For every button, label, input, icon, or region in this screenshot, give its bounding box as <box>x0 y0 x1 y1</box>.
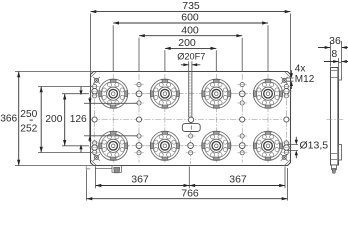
hole trio left edge top <box>89 84 100 98</box>
svg-text:36: 36 <box>329 35 341 47</box>
hole trio inner column right top <box>236 83 248 106</box>
dimension 400 <box>139 38 242 72</box>
bottom-left rack bracket detail <box>86 166 112 169</box>
svg-text:8: 8 <box>331 48 337 60</box>
small row pointer arrows <box>80 87 82 153</box>
svg-text:400: 400 <box>181 24 199 36</box>
M12 tapped hole bottom-left <box>93 154 100 161</box>
dimension 200 <box>165 50 216 71</box>
central capsule slot <box>182 124 200 132</box>
svg-text:M12: M12 <box>295 74 315 85</box>
bearing flange B6 bottom row <box>150 131 179 160</box>
middle row hole inner left <box>136 117 141 122</box>
hole trio right edge bottom (Ø13,5 holes) <box>281 141 292 155</box>
svg-text:735: 735 <box>182 0 200 12</box>
M12 tapped hole top-left <box>93 77 100 84</box>
dimension 36 <box>331 41 342 67</box>
side view right strips <box>339 63 342 81</box>
middle row hole left edge <box>92 117 97 122</box>
dimension 366 <box>15 72 93 166</box>
horizontal centerline middle row <box>91 119 290 121</box>
hole trio inner column left top <box>133 83 145 106</box>
hole trio right edge top <box>281 84 292 98</box>
side view inner face line <box>337 68 339 166</box>
svg-text:600: 600 <box>181 12 199 24</box>
side view main outline <box>331 68 339 166</box>
M12 tapped hole top-right <box>281 77 288 84</box>
svg-text:252: 252 <box>20 124 37 135</box>
central vertical rack slot <box>189 71 192 117</box>
dimension 4x M12 <box>287 78 294 81</box>
svg-text:200: 200 <box>178 37 196 49</box>
corner chamfer marks <box>91 72 291 166</box>
svg-text:Ø13,5: Ø13,5 <box>300 139 329 151</box>
hole trio left edge bottom <box>89 141 100 155</box>
svg-text:367: 367 <box>229 174 247 186</box>
svg-text:Ø20F7: Ø20F7 <box>177 51 205 61</box>
middle row hole right edge <box>284 117 289 122</box>
dimension 367 left <box>96 167 286 189</box>
horizontal centerline top bearing row <box>92 93 289 95</box>
svg-text:200: 200 <box>45 114 62 125</box>
bearing flange B3 top row <box>202 79 231 108</box>
bearing flange B8 bottom row <box>253 131 282 160</box>
dimension 766 <box>87 168 288 201</box>
hole trio inner column left bottom <box>133 134 145 155</box>
horizontal centerline bottom bearing row <box>92 145 289 147</box>
bearing flange B4 top row <box>253 79 282 108</box>
dimension 250-252 <box>38 87 92 153</box>
svg-text:250: 250 <box>20 109 37 120</box>
hole trio center column bottom <box>185 134 197 155</box>
dimension 126 <box>84 103 138 136</box>
svg-text:126: 126 <box>70 114 87 125</box>
dimension 600 <box>113 25 268 71</box>
side view bottom stub <box>332 165 337 170</box>
small hole below slot <box>188 117 193 122</box>
M12 tapped hole bottom-right <box>281 154 288 161</box>
bearing flange B2 top row <box>150 79 179 108</box>
bearing flange B1 top row <box>99 79 128 108</box>
bearing flange B5 bottom row <box>99 131 128 160</box>
side view centerline <box>327 119 344 121</box>
dimension Ø13,5 <box>288 145 299 151</box>
dimension 200 (left) <box>62 94 89 146</box>
side view hole section ticks <box>331 71 338 160</box>
hole trio inner column right bottom <box>236 134 248 155</box>
vertical centerlines of hole columns <box>95 78 287 161</box>
dimension 735 <box>91 14 291 75</box>
middle row hole inner right <box>240 117 245 122</box>
svg-text:766: 766 <box>181 188 199 200</box>
plate outline <box>91 72 291 166</box>
svg-text:366: 366 <box>0 113 17 124</box>
bearing flange B7 bottom row <box>202 131 231 160</box>
svg-text:367: 367 <box>131 174 149 186</box>
dimension 8 <box>338 58 340 63</box>
